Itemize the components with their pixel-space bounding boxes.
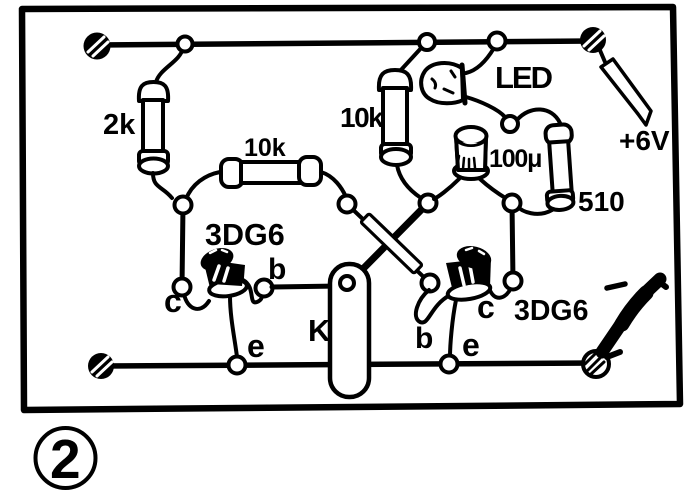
svg-text:510: 510 [578,186,625,217]
wire: black diagonal node D to switch K [350,203,428,282]
svg-text:10k: 10k [244,134,286,162]
wire: 2k bottom to node A [153,173,172,198]
node on bus middle [419,34,435,50]
junction node F [502,116,518,132]
svg-text:b: b [415,322,433,355]
wire: LED bottom lead to node F [466,97,505,117]
terminal screw top-left [84,33,111,60]
wire: top bus to 10k vertical top [400,46,423,71]
wire: 100u right lead to node G [480,179,507,199]
wire: right transistor collector lead to node c2 [489,288,511,298]
svg-text:3DG6: 3DG6 [514,295,588,327]
junction node D [420,195,437,212]
wire: top bus node to 2k top [156,48,183,82]
+6V sleeved wire [599,48,651,125]
svg-text:K: K [308,313,331,348]
wire: right transistor base loop to node E [416,290,450,323]
transistor Q1 3DG6 [197,244,247,299]
svg-text:+6V: +6V [619,125,670,156]
figure number 2 [36,428,96,490]
wire: node G to node c2 [512,203,513,281]
wire: left transistor emitter lead to node e1 [230,296,237,357]
label minus [607,284,625,288]
wire: 10k right to node B [321,172,346,197]
wire: ground bottom bus [101,363,596,366]
wire: 100u left lead to node D [434,179,459,199]
wire: right transistor emitter lead to node e2 [450,300,456,357]
resistor R3 10k vertical [379,70,411,165]
junction node E [422,275,439,292]
wire: sleeved jumper node B to node E [347,204,430,283]
junction node c1 [174,279,191,296]
svg-text:3DG6: 3DG6 [205,218,285,252]
wire: node A to node c1 vertical [182,205,183,287]
switch K body [330,264,369,397]
svg-text:LED: LED [495,60,553,95]
junction node b1 [256,280,273,297]
junction node c2 [505,273,522,290]
capacitor C1 100u [454,127,488,179]
wire: 510 bottom to node G [517,206,552,214]
wire: 10k vertical bottom to node D [397,165,421,198]
svg-text:e: e [462,327,480,363]
wire: left transistor base lead hook to node b1 [243,280,262,302]
svg-text:c: c [477,289,495,325]
junction node e1 [229,357,246,374]
resistor R2 10k horizontal [221,157,321,187]
board outline [22,7,680,410]
resistor R4 510 [542,124,577,211]
wire: node F to 510 top [517,109,560,123]
svg-text:100μ: 100μ [489,145,541,173]
node on bus left [178,37,193,52]
terminal screw bottom-left [88,353,114,379]
svg-text:2k: 2k [103,109,136,141]
transistor Q2 3DG6 [446,243,494,303]
node on bus right [489,33,506,50]
wire: LED top lead to top bus node [466,48,494,73]
svg-text:c: c [164,283,182,319]
junction node B [339,196,356,213]
svg-text:2: 2 [50,428,81,490]
svg-text:10k: 10k [340,102,384,133]
battery negative flex wire [602,279,666,357]
svg-text:e: e [247,328,265,364]
resistor R1 2k [139,82,168,174]
wire: node b1 to switch K [272,286,340,287]
junction node A [175,197,192,214]
wire: left transistor collector lead to node c1 [184,294,209,309]
terminal screw bottom-right [583,351,609,377]
terminal screw top-right [580,27,606,53]
wire: node A to 10k left [186,172,220,199]
wire: +V top bus [97,41,593,45]
LED D1 [421,63,465,103]
junction node G [504,195,521,212]
svg-text:b: b [268,253,286,286]
junction node e2 [441,356,458,373]
